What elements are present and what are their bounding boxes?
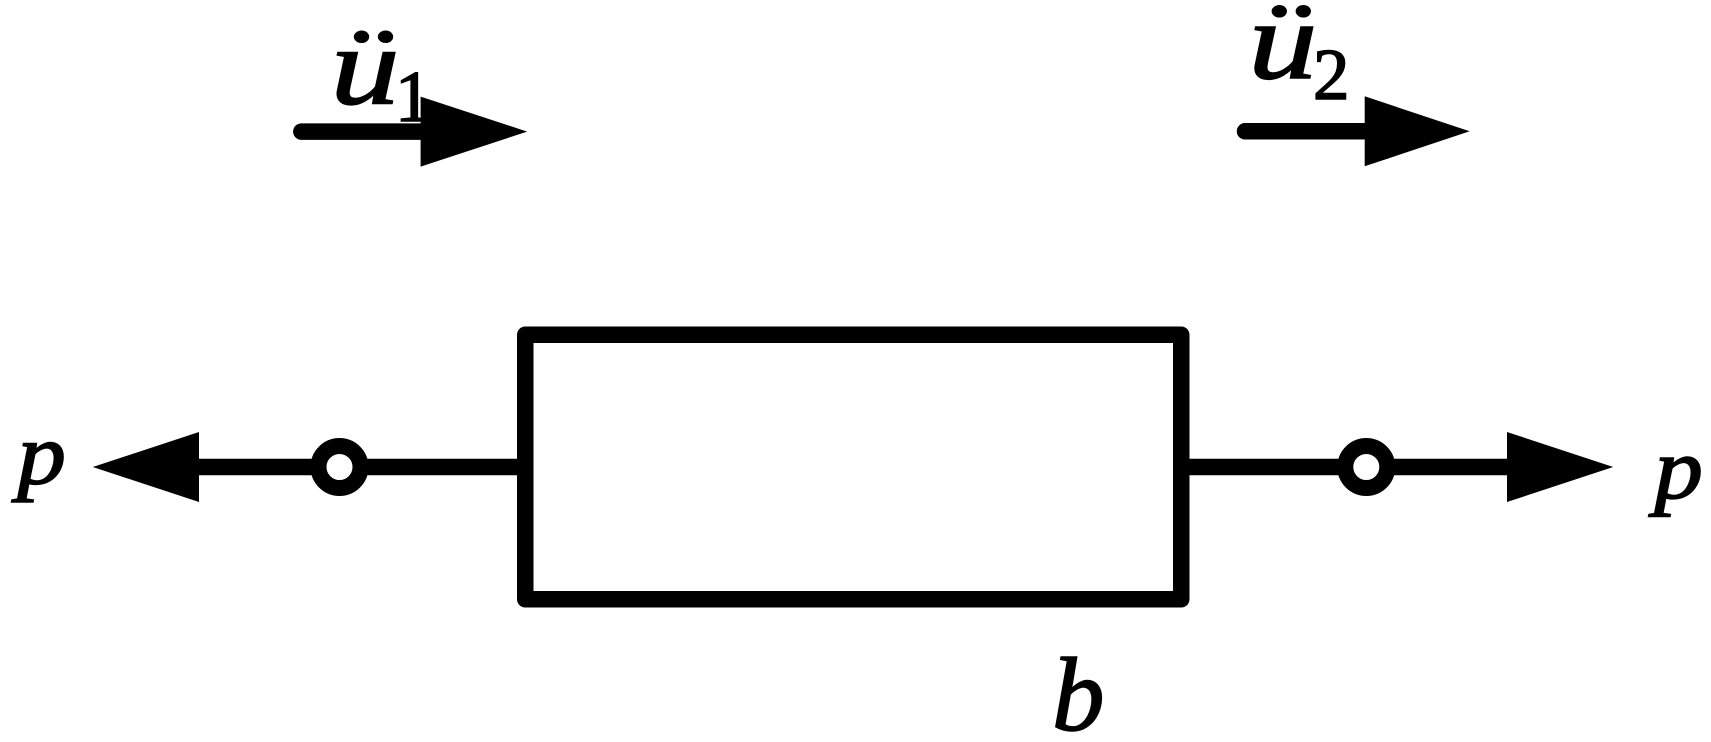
svg-text:2: 2 — [1313, 34, 1350, 115]
node: left pin circle — [319, 446, 361, 488]
arrowhead: acceleration arrow 2 — [1365, 96, 1470, 166]
wire: right lead — [1186, 459, 1512, 476]
arrowhead: acceleration arrow 1 — [421, 97, 528, 167]
svg-text:ü: ü — [1248, 0, 1317, 103]
node label u_ddot_1 — [331, 6, 432, 138]
arrowhead: force arrow right — [1507, 432, 1613, 502]
svg-text:ü: ü — [331, 6, 400, 129]
wire: acceleration arrow 1 shaft — [301, 123, 424, 140]
svg-text:p: p — [1648, 420, 1703, 517]
damper element b (box) — [525, 335, 1181, 600]
node: right pin circle — [1345, 446, 1387, 488]
node label u_ddot_2 — [1248, 0, 1349, 115]
wire: acceleration arrow 2 shaft — [1245, 123, 1368, 140]
svg-text:p: p — [11, 405, 66, 502]
arrowhead: force arrow left — [93, 432, 199, 502]
wire: left lead — [199, 459, 520, 476]
svg-text:b: b — [1052, 636, 1105, 742]
